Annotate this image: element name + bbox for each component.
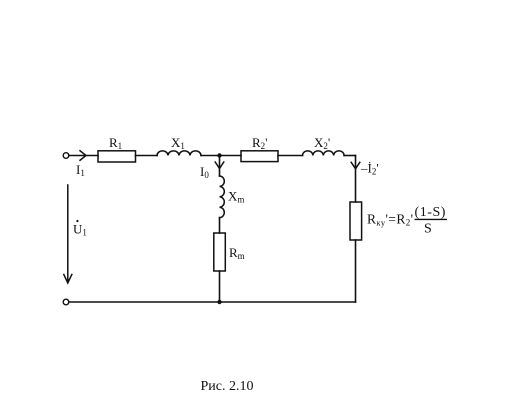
svg-text:U1: U1	[73, 222, 87, 238]
terminal top-left	[63, 153, 69, 159]
terminal bottom-left	[63, 299, 69, 305]
current arrow I0	[215, 162, 224, 169]
wire: right vertical lower segment	[355, 240, 357, 302]
svg-text:R2': R2'	[252, 135, 268, 151]
current arrow I1	[80, 151, 86, 161]
svg-text:R1: R1	[109, 135, 122, 151]
value label Rку'=R2'(1-S)/S	[367, 205, 447, 237]
svg-text:I1: I1	[76, 162, 85, 178]
wire top: terminal to R1	[69, 155, 98, 157]
wire: R2' to X2'	[278, 155, 303, 157]
svg-text:X1: X1	[171, 135, 185, 151]
svg-text:Rку'=R2': Rку'=R2'	[367, 212, 413, 228]
node A junction dot	[217, 153, 221, 157]
wire: X1 to node A	[201, 155, 220, 157]
svg-text:–İ2': –İ2'	[360, 161, 379, 177]
svg-text:(1-S): (1-S)	[415, 205, 447, 220]
svg-text:Rm: Rm	[229, 245, 245, 261]
current arrow -I2'	[351, 162, 360, 169]
svg-text:Xm: Xm	[228, 189, 244, 205]
svg-text:X2': X2'	[314, 135, 330, 151]
inductor Xm	[220, 176, 225, 218]
svg-text:Рис. 2.10: Рис. 2.10	[201, 379, 254, 393]
wire: Xm to Rm	[219, 218, 221, 233]
resistor Rm	[214, 233, 226, 271]
wire: Rm to bottom junction	[219, 271, 221, 302]
wire: middle vertical, node A to Xm	[219, 156, 221, 177]
label U1	[73, 220, 87, 238]
inductor X2'	[303, 151, 345, 156]
svg-text:I0: I0	[200, 164, 209, 180]
resistor R2'	[241, 151, 278, 162]
voltage arrow U1	[64, 185, 72, 283]
wire bottom	[69, 301, 356, 303]
wire: node A to R2'	[220, 155, 242, 157]
resistor Rку'	[350, 202, 362, 240]
wire: R1 to X1	[136, 155, 158, 157]
wire: X2' to right corner	[344, 155, 355, 157]
resistor R1	[98, 151, 136, 162]
svg-text:S: S	[424, 222, 432, 237]
inductor X1	[157, 151, 201, 156]
junction dot bottom	[217, 300, 221, 304]
wire: right vertical upper segment	[355, 156, 357, 203]
